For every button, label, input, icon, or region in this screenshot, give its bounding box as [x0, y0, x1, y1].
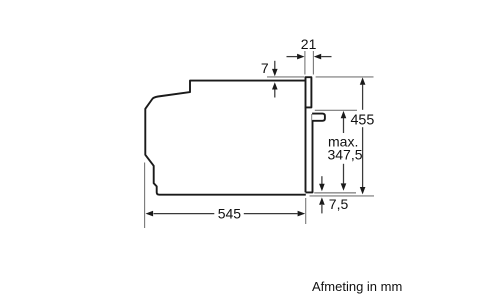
dim 21: extension line right — [312, 51, 314, 75]
svg-text:21: 21 — [301, 36, 317, 52]
svg-text:7,5: 7,5 — [329, 196, 349, 212]
oven body outline — [145, 81, 306, 195]
svg-text:7: 7 — [261, 60, 269, 76]
svg-text:455: 455 — [350, 112, 374, 128]
dim 7,5: upper gray extension line (door bottom level) — [314, 192, 356, 194]
dim 545: left extension line — [144, 163, 146, 229]
svg-text:545: 545 — [218, 206, 242, 222]
dim max 347,5: up arrow — [343, 118, 345, 133]
dim 7: down arrow — [274, 61, 276, 70]
dim max 347,5: down arrow — [343, 164, 345, 184]
dim 7: extension line (frame top level) — [267, 76, 304, 78]
dim 7,5: down arrow — [321, 176, 323, 184]
dim 21: left arrow — [287, 56, 298, 58]
body front edge — [305, 107, 307, 192]
dim 21: extension line left — [304, 51, 306, 75]
dim 7,5: up arrow — [321, 205, 323, 213]
door handle — [312, 114, 325, 121]
door front face and bottom edge — [306, 114, 313, 192]
dim 455: bottom extension line — [310, 195, 375, 197]
dim 7: up arrow — [274, 89, 276, 98]
svg-text:347,5: 347,5 — [327, 146, 362, 162]
dim 21: right arrow — [321, 56, 331, 58]
dim max 347,5: top extension line — [315, 109, 357, 111]
svg-text:Afmeting in mm: Afmeting in mm — [312, 279, 402, 294]
dim 545: right extension line — [305, 198, 307, 224]
dim 455: top extension line — [316, 76, 374, 78]
dim 455: dimension line with arrows — [362, 85, 364, 110]
dim 545: dimension line with arrows — [154, 213, 215, 215]
front frame (control panel) — [306, 77, 312, 107]
